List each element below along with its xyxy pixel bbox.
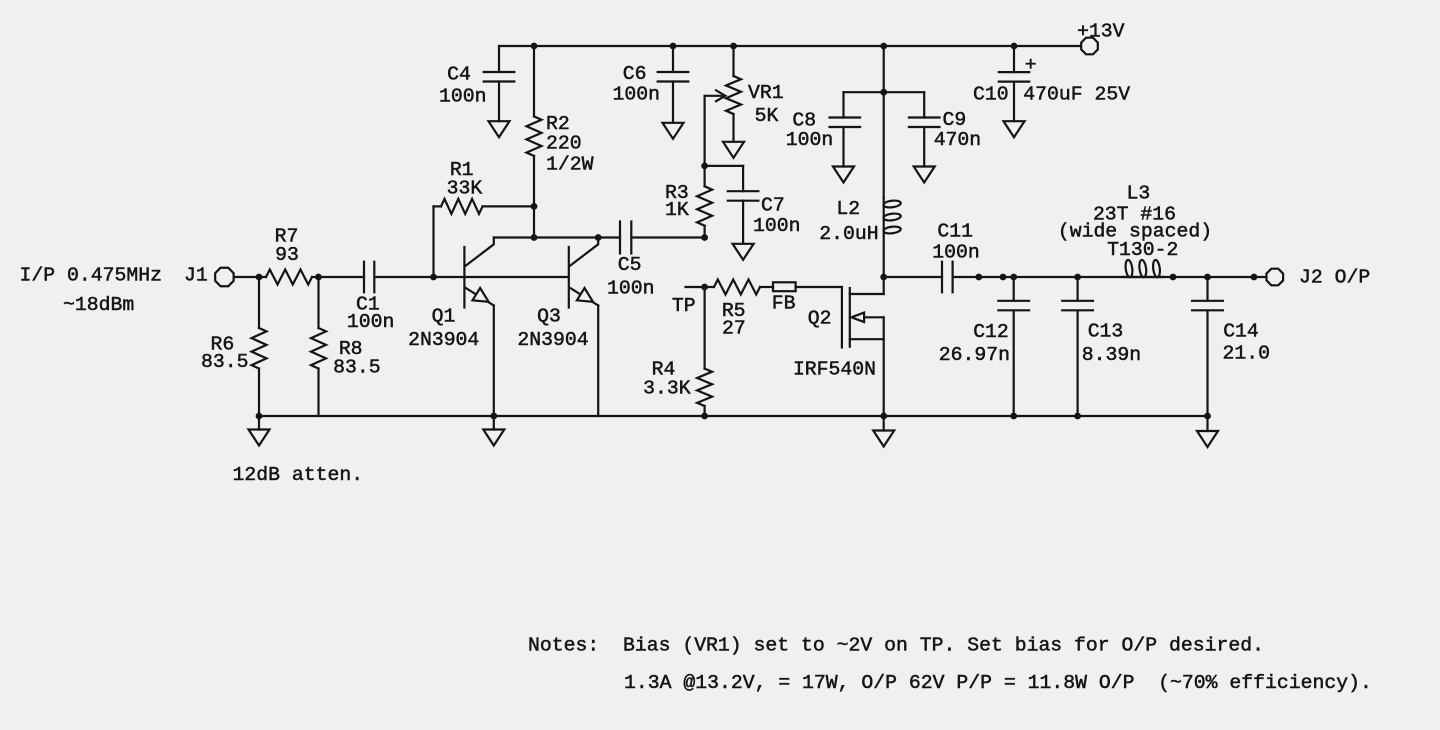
junction Q2 drain / output node xyxy=(880,274,887,281)
junction R2 / R1 xyxy=(531,203,538,210)
transistor Q2 MOSFET IRF540N xyxy=(841,287,843,347)
ground below C8 xyxy=(833,167,854,183)
ground below C9 xyxy=(914,167,935,183)
svg-text:2N3904: 2N3904 xyxy=(408,329,479,351)
ground below C6 xyxy=(663,123,684,139)
resistor R3 xyxy=(703,166,705,186)
junction C14 / ground bus xyxy=(1204,413,1211,420)
svg-text:FB: FB xyxy=(772,293,796,315)
inductor L2 xyxy=(883,92,885,197)
junction Q3 collector / collector wire xyxy=(595,234,602,241)
svg-text:2N3904: 2N3904 xyxy=(517,329,588,351)
svg-text:93: 93 xyxy=(275,244,299,266)
ferrite bead FB xyxy=(773,282,796,291)
svg-text:27: 27 xyxy=(722,317,746,339)
junction C13 / ground bus xyxy=(1074,413,1081,420)
svg-text:3.3K: 3.3K xyxy=(643,378,691,400)
svg-text:C6: C6 xyxy=(623,63,647,85)
ground below C4 xyxy=(489,121,510,137)
connector J2 output terminal xyxy=(1266,269,1283,286)
svg-text:C12: C12 xyxy=(973,321,1009,343)
VR1 wiper arrow xyxy=(705,95,722,97)
svg-text:J1: J1 xyxy=(184,264,208,286)
svg-text:Q1: Q1 xyxy=(432,305,456,327)
svg-text:1.3A @13.2V, = 17W, O/P 62V P/: 1.3A @13.2V, = 17W, O/P 62V P/P = 11.8W … xyxy=(624,672,1372,694)
svg-text:2.0uH: 2.0uH xyxy=(819,223,878,245)
svg-text:1K: 1K xyxy=(665,199,689,221)
wire C11 to J2 xyxy=(953,276,1266,278)
resistor R5 xyxy=(705,286,714,288)
potentiometer VR1 xyxy=(732,46,734,76)
resistor R1 xyxy=(432,206,434,277)
junction L3 / output wire xyxy=(1170,274,1177,281)
capacitor C12 xyxy=(1013,277,1015,301)
junction VR1 wiper / R3 / C7 xyxy=(701,163,708,170)
wire L2 branch from top rail xyxy=(883,46,885,92)
wire J1 to R7 xyxy=(234,276,259,278)
svg-text:R2: R2 xyxy=(546,113,570,135)
svg-text:IRF540N: IRF540N xyxy=(793,358,876,380)
svg-text:T130-2: T130-2 xyxy=(1107,239,1178,261)
svg-text:100n: 100n xyxy=(607,277,654,299)
wire collector node xyxy=(494,236,620,238)
resistor R6 xyxy=(258,277,260,328)
capacitor C5 xyxy=(619,222,621,254)
junction J2 wire xyxy=(1251,274,1258,281)
svg-text:L3: L3 xyxy=(1127,183,1151,205)
resistor R2 xyxy=(533,46,535,116)
capacitor C4 xyxy=(498,46,500,72)
junction C14 / output wire xyxy=(1204,274,1211,281)
connector +13V terminal xyxy=(1081,38,1098,55)
junction C1 / R1 / base wire xyxy=(430,274,437,281)
wire base node Q1 Q3 xyxy=(434,276,569,278)
junction output wire stub B xyxy=(1000,274,1007,281)
wire output node to C11 xyxy=(884,276,942,278)
wire FB to Q2 gate xyxy=(796,286,842,288)
ground below C10 xyxy=(1004,121,1025,137)
svg-text:C10: C10 xyxy=(973,84,1009,106)
svg-text:470n: 470n xyxy=(934,129,981,151)
svg-text:8.39n: 8.39n xyxy=(1082,344,1141,366)
svg-text:~18dBm: ~18dBm xyxy=(63,294,134,316)
svg-text:C11: C11 xyxy=(937,220,973,242)
svg-text:100n: 100n xyxy=(347,311,394,333)
svg-text:Notes: Bias (VR1) set to ~2V: Notes: Bias (VR1) set to ~2V on TP. Set … xyxy=(528,634,1264,656)
svg-text:Q3: Q3 xyxy=(537,305,561,327)
ground below Q2 xyxy=(883,416,885,431)
junction top rail / R2 xyxy=(531,43,538,50)
junction output wire stub A xyxy=(975,274,982,281)
ground below VR1 xyxy=(723,142,744,158)
junction C12 / output wire xyxy=(1010,274,1017,281)
transistor Q3 2N3904 xyxy=(568,247,570,308)
capacitor C7 xyxy=(742,166,744,191)
svg-text:Q2: Q2 xyxy=(808,307,832,329)
junction R6 / ground bus xyxy=(256,413,263,420)
svg-text:26.97n: 26.97n xyxy=(939,344,1010,366)
wire +13V top supply rail xyxy=(499,45,1080,47)
capacitor C9 xyxy=(923,92,925,117)
junction J1 wire / R6 xyxy=(256,274,263,281)
svg-text:5K: 5K xyxy=(755,105,779,127)
wire wiper node to C7 xyxy=(705,165,744,167)
svg-text:I/P 0.475MHz: I/P 0.475MHz xyxy=(20,264,162,286)
svg-text:100n: 100n xyxy=(439,86,486,108)
svg-text:21.0: 21.0 xyxy=(1223,342,1270,364)
svg-text:220: 220 xyxy=(546,133,582,155)
capacitor C13 xyxy=(1076,277,1078,301)
svg-text:C7: C7 xyxy=(761,195,785,217)
inductor L3 xyxy=(1122,276,1163,278)
transistor Q1 2N3904 xyxy=(463,247,465,308)
junction top rail / C6 xyxy=(670,43,677,50)
capacitor C6 xyxy=(672,46,674,72)
junction R3 / collector wire / C5 xyxy=(701,234,708,241)
ground left below R6 xyxy=(258,416,260,430)
svg-text:100n: 100n xyxy=(932,242,979,264)
svg-text:C14: C14 xyxy=(1223,321,1259,343)
resistor R7 xyxy=(259,276,266,278)
connector J1 input terminal xyxy=(215,268,233,286)
ground below Q1 emitter xyxy=(493,416,495,430)
svg-text:100n: 100n xyxy=(786,129,833,151)
svg-text:C8: C8 xyxy=(792,109,816,131)
svg-text:C5: C5 xyxy=(618,254,642,276)
svg-text:C9: C9 xyxy=(943,109,967,131)
svg-text:83.5: 83.5 xyxy=(333,356,380,378)
svg-text:100n: 100n xyxy=(753,215,800,237)
svg-text:33K: 33K xyxy=(447,178,483,200)
junction R2 / collector wire xyxy=(531,234,538,241)
junction L2 / C8 C9 branch xyxy=(880,89,887,96)
wire ground bus xyxy=(259,415,1208,417)
ground below C7 xyxy=(733,244,754,260)
resistor R4 xyxy=(703,287,705,369)
svg-text:100n: 100n xyxy=(612,83,659,105)
junction R4 / ground bus xyxy=(701,413,708,420)
svg-text:C13: C13 xyxy=(1088,321,1124,343)
svg-text:VR1: VR1 xyxy=(748,82,784,104)
svg-text:J2 O/P: J2 O/P xyxy=(1299,266,1370,288)
junction R7 / R8 / C1 xyxy=(315,274,322,281)
svg-text:L2: L2 xyxy=(836,198,860,220)
svg-text:12dB atten.: 12dB atten. xyxy=(233,464,364,486)
ground below C14 xyxy=(1206,416,1208,431)
capacitor C1 xyxy=(319,276,365,278)
svg-text:+13V: +13V xyxy=(1077,20,1125,42)
capacitor C14 xyxy=(1206,277,1208,301)
capacitor C11 xyxy=(941,262,943,293)
resistor R8 xyxy=(317,277,319,328)
svg-text:+: + xyxy=(1025,54,1037,76)
junction Q2 source / ground bus xyxy=(880,413,887,420)
svg-text:1/2W: 1/2W xyxy=(546,153,594,175)
svg-text:C4: C4 xyxy=(447,63,471,85)
capacitor C10 electrolytic xyxy=(1013,46,1015,72)
node TP test point xyxy=(701,284,708,291)
svg-text:470uF 25V: 470uF 25V xyxy=(1023,84,1130,106)
junction top rail / VR1 xyxy=(730,43,737,50)
junction C13 / output wire xyxy=(1074,274,1081,281)
junction Q1 emitter / ground bus xyxy=(490,413,497,420)
junction C12 / ground bus xyxy=(1010,413,1017,420)
capacitor C8 xyxy=(842,92,844,117)
junction top rail / C10 xyxy=(1011,43,1018,50)
svg-text:83.5: 83.5 xyxy=(201,351,248,373)
svg-text:TP: TP xyxy=(672,295,696,317)
junction top rail / L2 branch xyxy=(880,43,887,50)
